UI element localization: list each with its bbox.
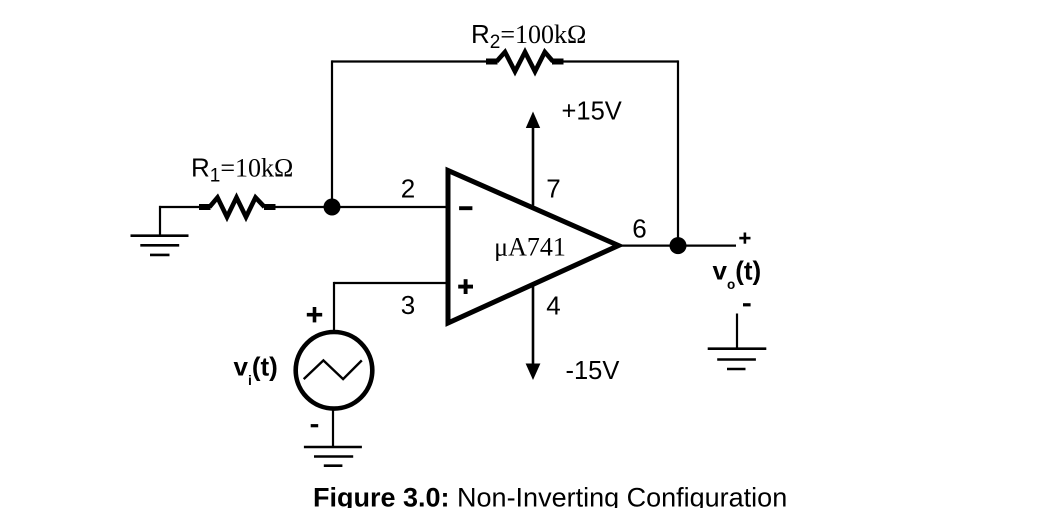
wire input horizontal	[159, 206, 448, 208]
pin 4 wire and -15V arrow	[526, 285, 541, 381]
svg-text:-15V: -15V	[566, 357, 620, 385]
op-amp plus input sign	[458, 279, 473, 294]
wire source to ground	[332, 409, 334, 447]
svg-text:6: 6	[632, 214, 646, 244]
wire pin3 input	[334, 282, 448, 332]
output plus sign	[739, 233, 750, 244]
op-amp U1 triangle	[448, 171, 619, 324]
wire left ground stub	[159, 206, 161, 236]
svg-text:+15V: +15V	[562, 98, 622, 126]
svg-text:3: 3	[401, 290, 415, 320]
pin 7 wire and +15V arrow	[526, 112, 540, 206]
wire output	[617, 245, 736, 247]
source minus sign	[311, 424, 319, 427]
ground right	[708, 349, 767, 369]
svg-text:vo(t): vo(t)	[713, 255, 762, 292]
output minus sign	[743, 303, 751, 306]
svg-text:R1=10kΩ: R1=10kΩ	[191, 153, 293, 187]
svg-text:7: 7	[546, 174, 560, 204]
wire feedback top horizontal	[332, 60, 678, 62]
resistor R2	[486, 52, 564, 72]
wire feedback vertical right	[677, 60, 679, 245]
svg-text:Figure 3.0: Non-Inverting Conf: Figure 3.0: Non-Inverting Configuration	[313, 483, 787, 508]
svg-text:4: 4	[546, 290, 560, 320]
resistor R1	[199, 198, 276, 218]
ground left	[131, 236, 189, 255]
svg-text:vi(t): vi(t)	[234, 352, 278, 389]
svg-text:2: 2	[401, 174, 415, 204]
op-amp minus input sign	[459, 206, 472, 210]
node B output junction	[670, 237, 687, 254]
ground bottom	[304, 447, 362, 466]
svg-text:μA741: μA741	[494, 233, 566, 262]
wire feedback vertical left	[331, 60, 333, 207]
source Vi circle	[296, 332, 373, 409]
svg-text:R2=100kΩ: R2=100kΩ	[471, 19, 586, 53]
wire right ground stub	[736, 314, 738, 349]
source plus sign	[307, 307, 322, 322]
node A input junction	[324, 199, 341, 216]
source triangle waveform	[304, 360, 362, 379]
